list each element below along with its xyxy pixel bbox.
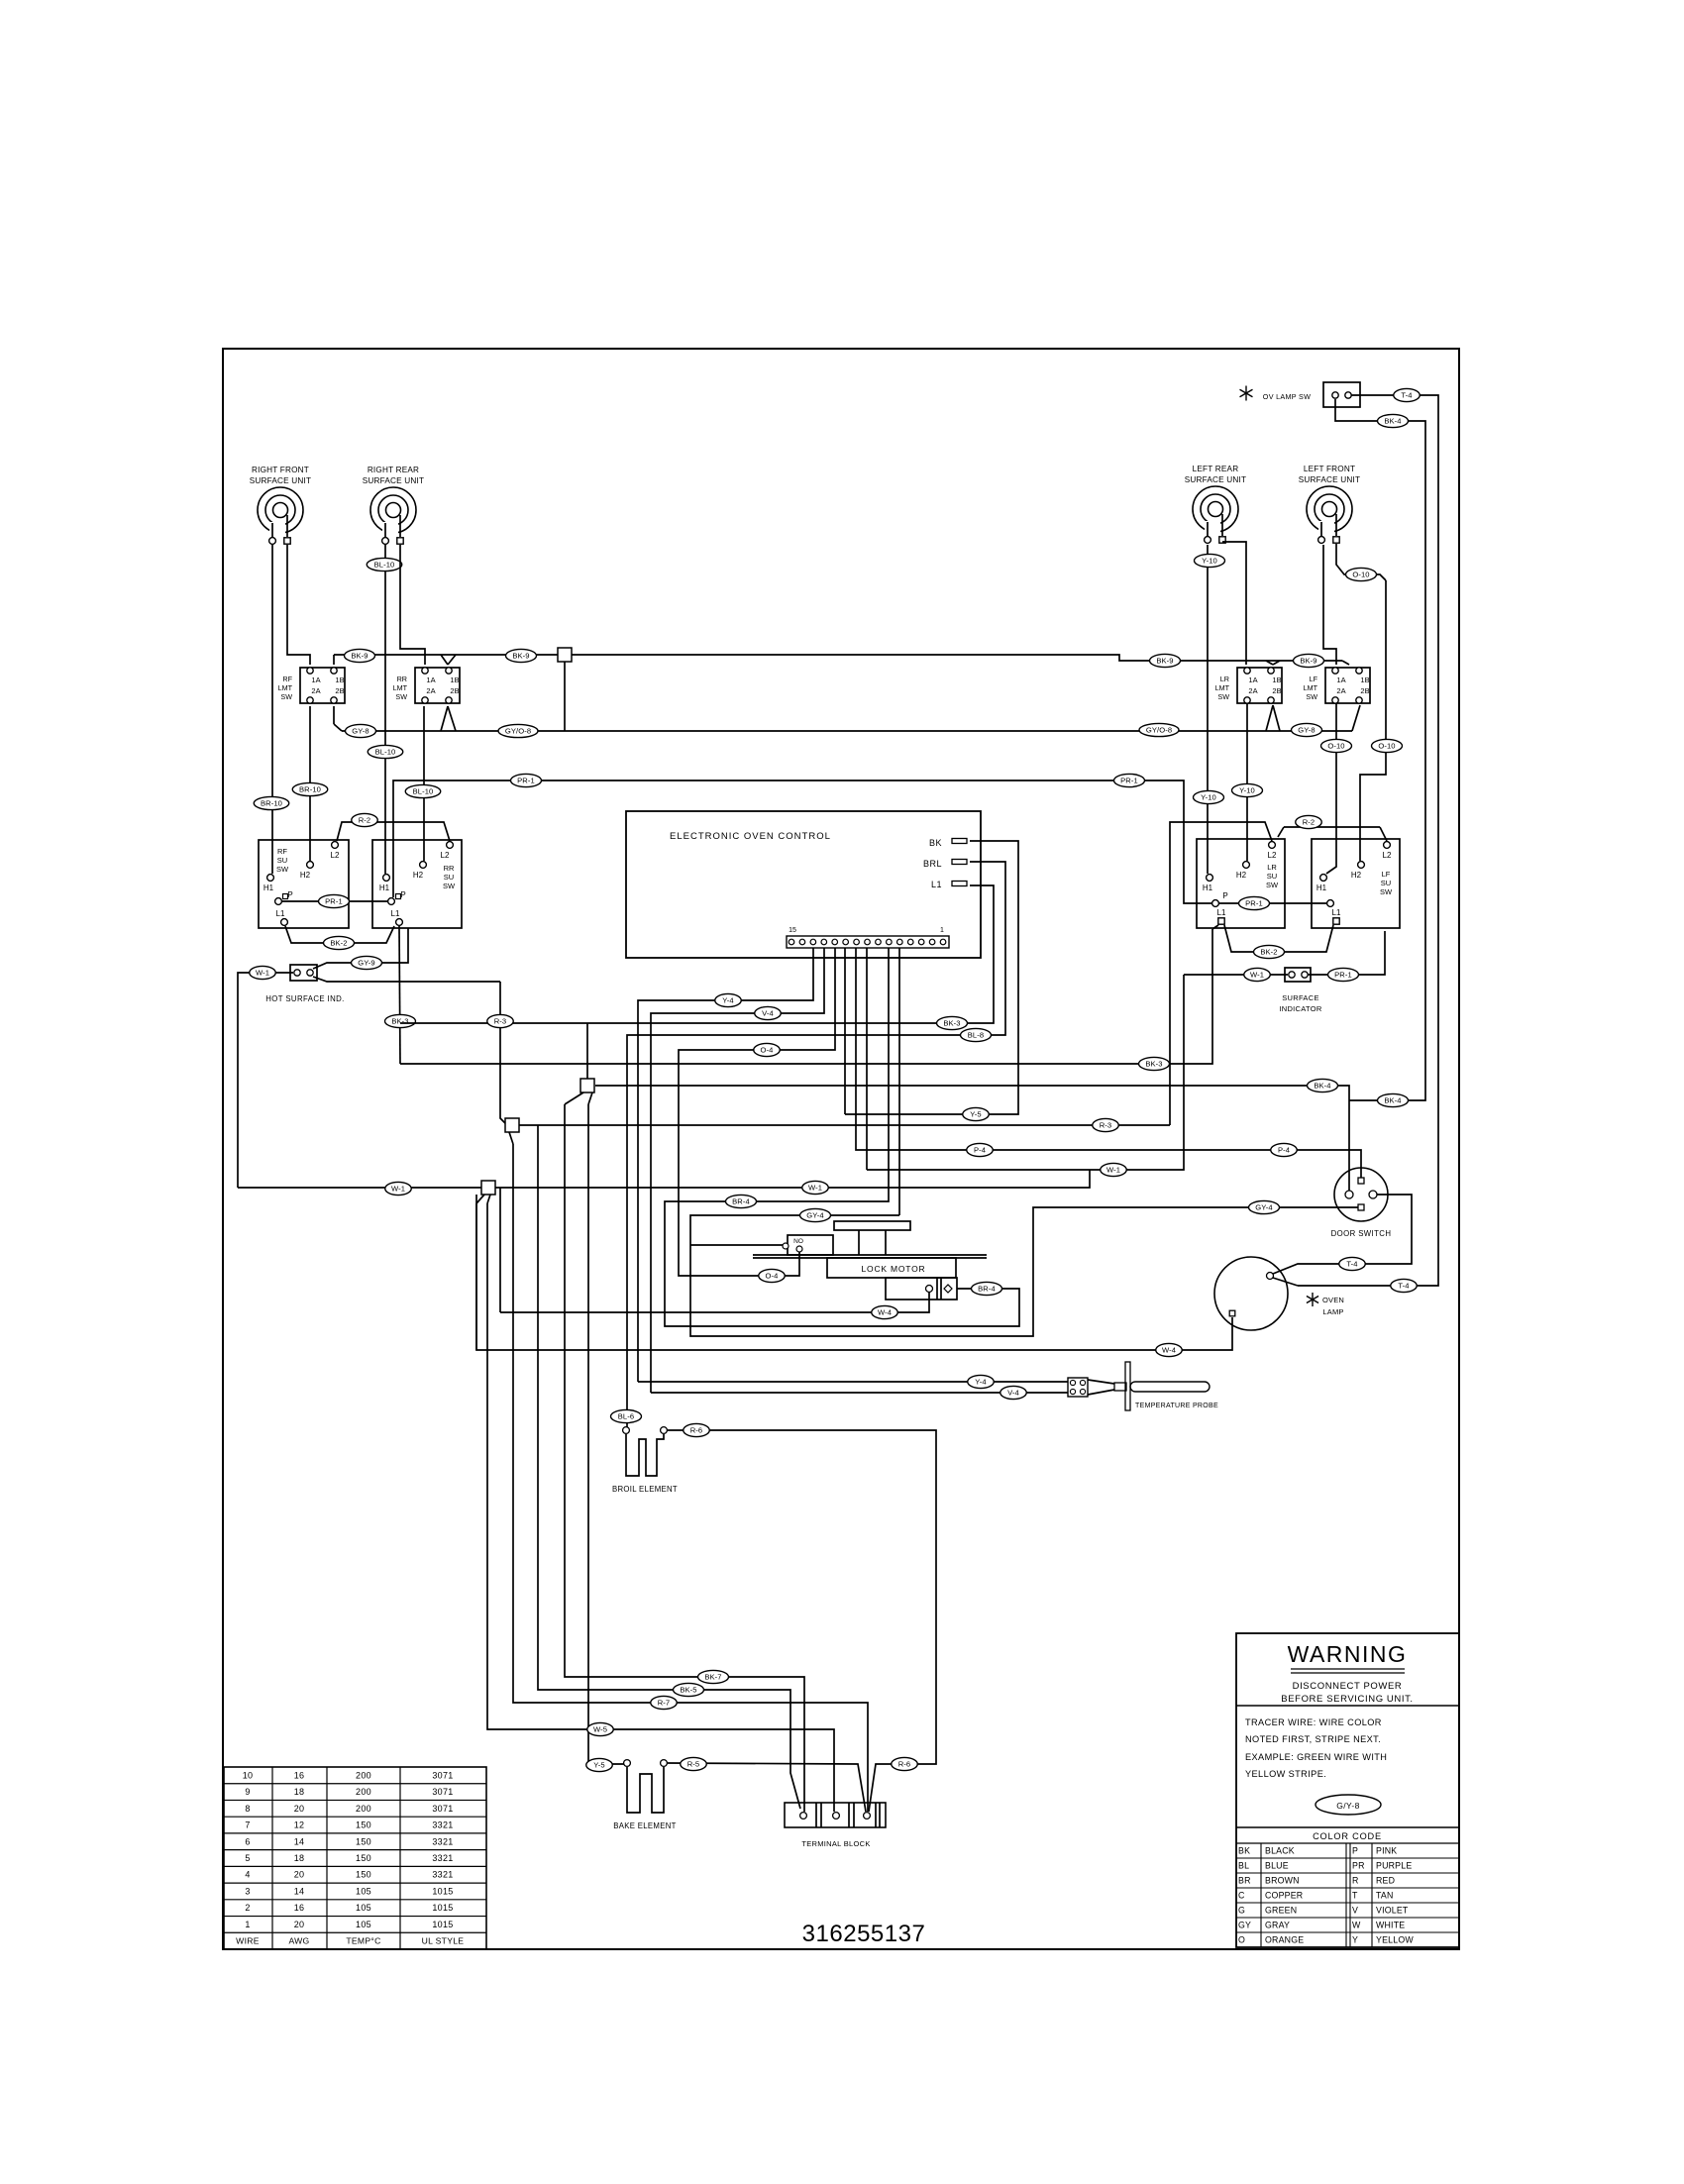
wire GY-9 [313,928,408,969]
svg-text:G: G [1238,1906,1245,1916]
wire label PR-1 b [511,774,542,786]
wire label W-1 b [802,1181,829,1194]
wire label T-4 c [1391,1279,1418,1292]
wire label T-4 a [1394,388,1421,401]
svg-text:12: 12 [294,1820,305,1830]
wire GY-4 pin5 [898,948,900,1215]
svg-text:14: 14 [294,1886,305,1896]
svg-text:H2: H2 [1236,871,1247,880]
svg-text:Y-5: Y-5 [593,1761,604,1770]
svg-text:W-1: W-1 [1106,1166,1120,1175]
wire label BL-10 b [405,784,441,797]
svg-text:V-4: V-4 [1007,1389,1019,1398]
svg-text:2: 2 [245,1903,250,1913]
wire label BK-3 a [385,1014,416,1027]
svg-text:LF: LF [1310,675,1318,683]
tracer wire note [1245,1717,1387,1779]
junction square top [558,648,572,662]
wire BK-5 vertical [538,1125,800,1809]
svg-text:YELLOW: YELLOW [1376,1935,1414,1945]
svg-text:2B: 2B [1272,686,1281,695]
wire R-2 left [337,822,450,841]
svg-text:BK-9: BK-9 [1300,657,1316,666]
svg-text:SU: SU [1381,879,1391,887]
svg-text:105: 105 [356,1920,371,1929]
svg-text:1B: 1B [335,676,344,684]
svg-text:1A: 1A [426,676,435,684]
svg-text:L1: L1 [1217,908,1226,917]
wire label BK-3 b [937,1016,968,1029]
wire LR coil left to H1 [1207,545,1209,874]
svg-text:BK-9: BK-9 [1156,657,1173,666]
svg-text:W-1: W-1 [256,969,269,978]
svg-text:16: 16 [294,1903,305,1913]
wire label GY-4 b [1249,1200,1280,1213]
svg-text:BK: BK [929,838,942,848]
wire R-3 vertical [500,982,507,1125]
electronic oven control U1 [626,811,981,958]
wire W-4 lock motor [500,1293,929,1312]
wire BK-9 X at RR [441,655,456,665]
svg-text:W-4: W-4 [878,1308,892,1317]
wire RF coil left to H1 [271,545,273,874]
svg-text:2A: 2A [311,686,320,695]
svg-text:P-4: P-4 [1278,1146,1290,1155]
svg-text:R-5: R-5 [687,1760,700,1769]
svg-text:3071: 3071 [432,1770,453,1780]
wire LR coil right to LMT 1A [1222,542,1246,665]
wire label O-10 a [1346,568,1377,580]
wire BK-9 stub RF 1B [333,655,335,665]
svg-text:BL-10: BL-10 [413,787,434,796]
svg-text:R-2: R-2 [1303,818,1316,827]
wire PR-1 surface indicator [1308,931,1385,975]
svg-text:W-4: W-4 [1162,1346,1176,1355]
wire BK-2 left [285,926,394,943]
wire J2 slant R-7 [509,1132,513,1144]
svg-text:GY-4: GY-4 [1255,1203,1272,1212]
wire LF coil left to LMT 1A [1323,545,1336,665]
svg-text:BL: BL [1238,1861,1249,1871]
wire label Y-10 b [1194,790,1224,803]
svg-text:LMT: LMT [278,683,293,692]
svg-text:R-3: R-3 [1100,1121,1112,1130]
svg-text:Y-10: Y-10 [1239,786,1255,795]
svg-text:2A: 2A [1336,686,1345,695]
svg-text:RED: RED [1376,1876,1395,1886]
wire label O-4 b [759,1269,786,1282]
wire label BK-7 [698,1670,729,1683]
svg-text:R: R [1352,1876,1359,1886]
oven lamp [1214,1257,1344,1330]
wire BK-2 right [1224,925,1333,952]
wire J1 slant bake [588,1092,592,1104]
svg-text:R-6: R-6 [690,1426,703,1435]
svg-text:L1: L1 [391,909,400,918]
wire EOC pin10 descender [844,948,846,1114]
wire label V-4 d [1000,1386,1027,1399]
svg-text:Y-10: Y-10 [1202,557,1217,566]
wire label R-7 [651,1696,678,1709]
wire W-4 lower vertical [475,1203,477,1350]
LF surface switch box [1312,839,1400,928]
svg-text:1A: 1A [311,676,320,684]
svg-text:1B: 1B [1360,676,1369,684]
svg-text:3: 3 [245,1886,250,1896]
wire label BK-9 b [506,649,537,662]
hot surface indicator [265,965,344,1003]
wire J3 slant W-4 [476,1195,484,1203]
wire J1 slant BK-7 [565,1092,583,1104]
svg-text:GY-9: GY-9 [358,959,374,968]
svg-text:BK-4: BK-4 [1314,1082,1330,1091]
svg-text:NOTED FIRST, STRIPE NEXT.: NOTED FIRST, STRIPE NEXT. [1245,1734,1381,1744]
wire BK-9 slant LF 1B [1342,661,1349,665]
lock motor [753,1221,987,1300]
svg-text:BK-9: BK-9 [512,652,529,661]
svg-text:GRAY: GRAY [1265,1921,1290,1930]
svg-text:BEFORE SERVICING UNIT.: BEFORE SERVICING UNIT. [1281,1694,1413,1705]
svg-text:BL-6: BL-6 [618,1412,634,1421]
RR limit switch [393,668,460,703]
wire GY-4 line [690,1207,1358,1336]
svg-text:HOT SURFACE IND.: HOT SURFACE IND. [265,994,344,1003]
svg-text:LEFT REAR: LEFT REAR [1193,465,1239,473]
svg-text:BL-8: BL-8 [968,1031,984,1040]
svg-text:1B: 1B [450,676,459,684]
wire BK-9 bus [334,655,1342,661]
svg-text:1015: 1015 [432,1920,453,1929]
svg-text:DISCONNECT POWER: DISCONNECT POWER [1293,1681,1403,1692]
wire BK-7 vertical [565,1104,804,1812]
wire J1 up [586,1023,588,1079]
wire RF coil right to LMT 1A [287,545,310,665]
wire label W-1 b2 [385,1182,412,1195]
svg-text:H1: H1 [1316,884,1327,892]
svg-text:7: 7 [245,1820,250,1830]
svg-text:RR: RR [444,864,455,873]
wire R-2 right [1170,822,1272,1125]
svg-text:8: 8 [245,1804,250,1814]
wire PR-1 bus [393,780,1212,903]
wire O-4 to lock switch [749,1252,799,1276]
svg-text:O-10: O-10 [1327,742,1344,751]
wire J3 slant W-5 [487,1195,490,1203]
svg-text:V: V [1352,1906,1358,1916]
svg-text:LR: LR [1267,863,1277,872]
svg-text:RR: RR [397,675,407,683]
wire LF O-10 vertical [1360,580,1386,861]
svg-text:BR-10: BR-10 [261,799,282,808]
svg-text:WHITE: WHITE [1376,1921,1405,1930]
svg-text:T: T [1352,1891,1358,1901]
svg-text:LMT: LMT [1304,683,1318,692]
svg-text:RIGHT REAR: RIGHT REAR [368,466,419,474]
svg-text:TEMP°C: TEMP°C [346,1936,380,1946]
svg-text:3321: 3321 [432,1870,453,1880]
wire W-5 vertical [487,1203,834,1812]
wire label BK-4 a [1308,1079,1338,1092]
svg-text:PURPLE: PURPLE [1376,1861,1412,1871]
svg-text:BR-10: BR-10 [299,785,321,794]
svg-text:Y: Y [1352,1935,1358,1945]
svg-text:O-4: O-4 [761,1046,774,1055]
svg-text:150: 150 [356,1836,371,1846]
wire label R-3 b [1093,1118,1119,1131]
wire label R-5 [681,1757,707,1770]
svg-text:UL STYLE: UL STYLE [422,1936,465,1946]
svg-text:H2: H2 [413,871,424,880]
svg-text:GY/O-8: GY/O-8 [1146,726,1172,735]
surface indicator [1279,968,1322,1013]
svg-text:SW: SW [395,692,407,701]
page border [223,349,1459,1949]
wire label W-1 a [250,966,276,979]
oven lamp switch [1240,382,1360,407]
wire label GY-O-8 c [1139,723,1179,736]
svg-text:LEFT FRONT: LEFT FRONT [1304,465,1355,473]
wire GY-8 X at LR [1266,705,1280,731]
svg-text:1015: 1015 [432,1886,453,1896]
wire label PR-1 e [1114,774,1145,786]
svg-text:1A: 1A [1336,676,1345,684]
wire V-4 pin12 [651,948,824,1393]
color code table [1236,1831,1459,1947]
svg-text:GY-4: GY-4 [806,1211,823,1220]
wire PR-1 right [1219,902,1327,904]
svg-text:18: 18 [294,1853,305,1863]
LR limit switch [1215,668,1282,703]
svg-text:BK-9: BK-9 [351,652,368,661]
wire label W-5 [587,1722,614,1735]
bake element [613,1760,676,1830]
wire label GY-8 a [346,724,376,737]
wire R-3 horizontal [519,1124,1170,1126]
wire label O-10 c [1372,739,1403,752]
svg-text:SW: SW [276,865,289,874]
svg-text:BL-10: BL-10 [374,561,395,570]
svg-text:W-5: W-5 [593,1725,607,1734]
wire label BK-5 [674,1683,704,1696]
svg-text:BROWN: BROWN [1265,1876,1300,1886]
warning box [1236,1633,1459,1947]
svg-text:150: 150 [356,1820,371,1830]
svg-text:BK: BK [1238,1846,1250,1856]
svg-text:105: 105 [356,1903,371,1913]
svg-text:3071: 3071 [432,1804,453,1814]
svg-text:PR-1: PR-1 [1245,899,1263,908]
wire LR L1 slant a [1212,925,1218,929]
svg-text:P: P [1222,891,1227,900]
svg-text:SW: SW [1380,887,1393,896]
right rear surface unit [363,466,424,544]
wire label GY-9 [352,956,382,969]
wire label V-4 a [755,1006,782,1019]
svg-text:RF: RF [282,675,292,683]
wire label BK-9 c [1150,654,1181,667]
wire label GY-O-8 b [498,724,538,737]
wire BK-3 vertical RR L1 [399,926,400,1064]
svg-text:4: 4 [245,1870,250,1880]
wire Y-4 pin13 [638,948,813,1382]
wire RR 2A to H2 [423,706,425,861]
wire LF 2A to H1 [1326,703,1336,874]
svg-text:Y-5: Y-5 [970,1110,981,1119]
svg-text:LR: LR [1220,675,1229,683]
svg-text:BR: BR [1238,1876,1251,1886]
wire NO switch lead horizontal [690,1244,783,1246]
svg-text:L1: L1 [1332,908,1341,917]
right front surface unit [250,466,311,544]
svg-text:BRL: BRL [923,859,942,869]
wire W-1 upper segment [867,975,1184,1170]
svg-text:L2: L2 [441,851,450,860]
part number 316255137 [802,1921,926,1947]
wire label W-1 c [1244,968,1271,981]
wire label BR-4 b [972,1282,1002,1295]
svg-text:SU: SU [277,856,287,865]
RF limit switch [278,668,345,703]
svg-text:14: 14 [294,1836,305,1846]
svg-text:W-1: W-1 [391,1185,405,1194]
wire T-4 slant to oven lamp [1273,1278,1298,1286]
svg-text:H1: H1 [379,884,390,892]
svg-text:SW: SW [280,692,292,701]
svg-text:2A: 2A [426,686,435,695]
svg-text:COLOR CODE: COLOR CODE [1313,1831,1382,1841]
wire label R-6 b [684,1423,710,1436]
wire GY-8 bus [342,730,1352,732]
svg-text:YELLOW STRIPE.: YELLOW STRIPE. [1245,1769,1326,1779]
wire label BL-6 a [611,1409,642,1422]
svg-text:BK-3: BK-3 [943,1019,960,1028]
wire label BK-9 d [1294,654,1324,667]
svg-text:P-4: P-4 [974,1146,986,1155]
wire R-5 [668,1763,866,1812]
svg-text:COPPER: COPPER [1265,1891,1303,1901]
junction square J2 [505,1118,519,1132]
svg-text:BK-4: BK-4 [1384,417,1401,426]
wire T-4 from lamp switch [1298,395,1438,1286]
wire label W-4 a [872,1305,898,1318]
wire indicator lower lead [313,977,500,982]
svg-text:W-1: W-1 [808,1184,822,1193]
svg-text:RIGHT FRONT: RIGHT FRONT [252,466,309,474]
wire EOC BK lead [845,841,1018,1114]
svg-text:GY: GY [1238,1921,1251,1930]
wire label Y-5 b [963,1107,990,1120]
svg-text:GY-8: GY-8 [352,727,368,736]
svg-text:SURFACE UNIT: SURFACE UNIT [363,476,424,485]
wire PR-1 left [282,900,388,902]
svg-text:L2: L2 [1268,851,1277,860]
door switch [1331,1168,1392,1238]
svg-text:SW: SW [1217,692,1229,701]
wire O-4 pin11 [679,948,835,1276]
svg-text:BK-2: BK-2 [1260,948,1277,957]
svg-text:15: 15 [789,927,796,934]
wire RR coil left to H1 [384,545,386,874]
svg-text:BK-4: BK-4 [1384,1096,1401,1105]
svg-text:10: 10 [243,1770,254,1780]
svg-text:AWG: AWG [288,1936,309,1946]
svg-text:200: 200 [356,1787,371,1797]
wire BK-4 a [595,1086,1349,1191]
wire V-4 probe [651,1392,1068,1394]
svg-text:LMT: LMT [1215,683,1230,692]
wire label Y-10 c [1232,783,1263,796]
wire label BK-2 b [1254,945,1285,958]
svg-text:20: 20 [294,1804,305,1814]
svg-text:H2: H2 [300,871,311,880]
svg-text:PR: PR [1352,1861,1365,1871]
svg-text:105: 105 [356,1886,371,1896]
svg-text:BLUE: BLUE [1265,1861,1289,1871]
svg-text:6: 6 [245,1836,250,1846]
wire BR-4 pin6 [665,948,1019,1326]
svg-text:20: 20 [294,1920,305,1929]
svg-text:W: W [1352,1921,1361,1930]
wire label GY-4 a [800,1208,831,1221]
svg-text:SW: SW [1266,881,1279,889]
svg-text:DOOR SWITCH: DOOR SWITCH [1331,1229,1392,1238]
svg-text:BR-4: BR-4 [978,1285,996,1294]
broil element [612,1427,678,1494]
wire R-2 right second [1278,827,1387,841]
wire label BR-4 a [726,1195,757,1207]
wire label G/Y-8 example [1316,1795,1381,1815]
svg-text:PR-1: PR-1 [325,897,343,906]
wire GY-8 slant RF 2B [334,706,342,731]
svg-text:TAN: TAN [1376,1891,1394,1901]
svg-text:3071: 3071 [432,1787,453,1797]
svg-text:V-4: V-4 [762,1009,774,1018]
wire EOC BRL lead [627,862,1005,1427]
wire label BK-9 a [345,649,375,662]
wire W-1 bus [238,1170,1090,1188]
svg-text:H2: H2 [1351,871,1362,880]
wire BK-3 bus 1074 [400,929,1212,1064]
svg-text:BL-10: BL-10 [375,748,396,757]
svg-text:NO: NO [793,1238,803,1245]
wire label R-6 c [892,1757,918,1770]
svg-text:VIOLET: VIOLET [1376,1906,1409,1916]
svg-text:T-4: T-4 [1401,391,1412,400]
svg-text:WARNING: WARNING [1288,1641,1408,1667]
wire W-4 vertical [499,1188,501,1312]
svg-text:R-6: R-6 [898,1760,911,1769]
svg-text:SW: SW [443,882,456,890]
svg-text:BAKE ELEMENT: BAKE ELEMENT [613,1821,676,1830]
junction square J1 [580,1079,594,1092]
svg-text:150: 150 [356,1870,371,1880]
wire junction vertical [564,662,566,731]
svg-text:LAMP: LAMP [1322,1307,1343,1316]
wire label R-2 a [352,813,378,826]
wire label PR-1 a [319,894,350,907]
wire label GY-8 d [1292,723,1322,736]
svg-text:2B: 2B [450,686,459,695]
svg-text:H1: H1 [1203,884,1213,892]
left front surface unit [1299,465,1360,543]
wire label O-4 a [754,1043,781,1056]
svg-text:3321: 3321 [432,1836,453,1846]
svg-text:O-10: O-10 [1378,742,1395,751]
svg-text:OV LAMP SW: OV LAMP SW [1263,392,1311,401]
svg-text:R-2: R-2 [359,816,371,825]
svg-text:L2: L2 [331,851,340,860]
wire R-7 vertical [513,1144,868,1812]
